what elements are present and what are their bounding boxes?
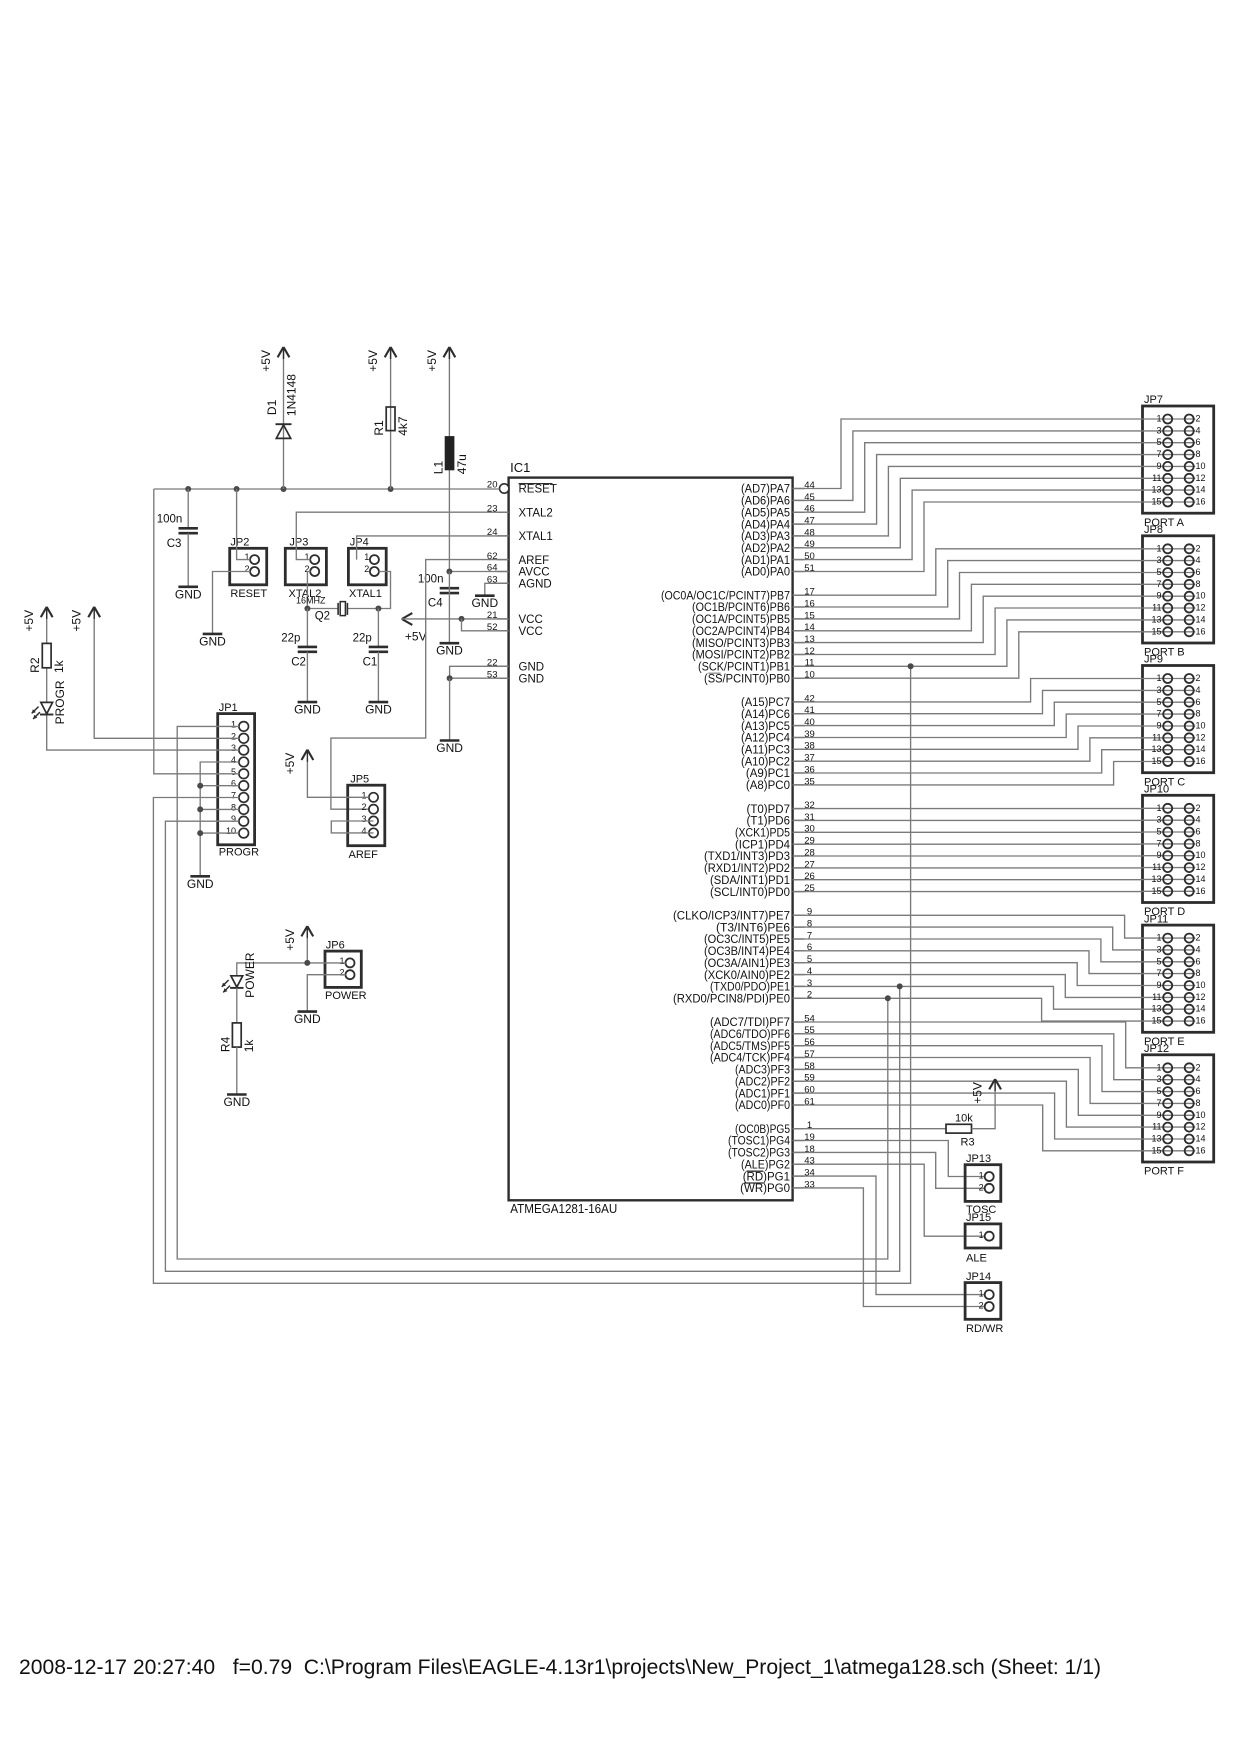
svg-text:(AD1)PA1: (AD1)PA1 bbox=[741, 555, 790, 567]
svg-text:13: 13 bbox=[1151, 485, 1161, 495]
svg-text:7: 7 bbox=[1156, 449, 1161, 459]
svg-text:33: 33 bbox=[804, 1179, 815, 1190]
svg-text:12: 12 bbox=[1196, 1122, 1206, 1132]
wire C3 to ground bbox=[187, 533, 189, 586]
svg-text:(TOSC1)PG4: (TOSC1)PG4 bbox=[728, 1136, 791, 1148]
svg-text:8: 8 bbox=[231, 802, 236, 812]
svg-text:30: 30 bbox=[804, 824, 815, 835]
svg-text:C2: C2 bbox=[291, 656, 306, 668]
svg-text:13: 13 bbox=[1151, 614, 1161, 624]
wire PF7 to JP12 pin 1 bbox=[793, 1022, 1143, 1068]
svg-text:34: 34 bbox=[804, 1168, 815, 1179]
wire PE6 to JP11 pin 3 bbox=[793, 927, 1143, 950]
svg-text:15: 15 bbox=[1151, 497, 1161, 507]
svg-text:8: 8 bbox=[1196, 968, 1201, 978]
wire PC1 to JP9 pin 13 bbox=[793, 750, 1143, 773]
svg-text:GND: GND bbox=[294, 703, 321, 717]
ground below C2 bbox=[294, 702, 321, 717]
svg-text:(ADC4/TCK)PF4: (ADC4/TCK)PF4 bbox=[710, 1053, 791, 1065]
svg-text:14: 14 bbox=[1196, 614, 1206, 624]
svg-text:1: 1 bbox=[1156, 803, 1161, 813]
node junction PDI on PE0 bbox=[885, 995, 891, 1001]
wire R3 to +5V bbox=[972, 1079, 996, 1129]
ground below C4 bbox=[436, 643, 463, 658]
wire RESET net bus bbox=[154, 488, 500, 490]
svg-text:9: 9 bbox=[1156, 1110, 1161, 1120]
svg-text:JP5: JP5 bbox=[350, 773, 369, 785]
svg-text:11: 11 bbox=[1152, 732, 1161, 742]
svg-text:(SS/PCINT0)PB0: (SS/PCINT0)PB0 bbox=[704, 673, 790, 685]
svg-text:(A15)PC7: (A15)PC7 bbox=[741, 697, 790, 709]
svg-text:(AD3)PA3: (AD3)PA3 bbox=[741, 531, 790, 543]
svg-text:(OC2A/PCINT4)PB4: (OC2A/PCINT4)PB4 bbox=[692, 626, 791, 638]
svg-text:(A8)PC0: (A8)PC0 bbox=[746, 780, 790, 792]
connector JP9 PORT C 16-pin header bbox=[1143, 654, 1214, 789]
svg-text:(OC3C/INT5)PE5: (OC3C/INT5)PE5 bbox=[704, 934, 790, 946]
svg-text:1: 1 bbox=[1156, 1062, 1161, 1072]
wire PF2 to JP12 pin 11 bbox=[793, 1081, 1143, 1127]
wire JP2 pin2 to ground bbox=[213, 572, 251, 634]
svg-text:16: 16 bbox=[1196, 1145, 1206, 1155]
svg-text:JP12: JP12 bbox=[1144, 1043, 1169, 1055]
svg-text:11: 11 bbox=[1152, 473, 1161, 483]
svg-text:12: 12 bbox=[804, 646, 815, 657]
connector JP11 PORT E 16-pin header bbox=[1143, 913, 1214, 1048]
svg-text:10: 10 bbox=[1196, 721, 1206, 731]
+5V supply at R1 bbox=[366, 347, 396, 372]
node junction pin8 gnd bbox=[197, 806, 203, 812]
svg-text:6: 6 bbox=[1196, 697, 1201, 707]
+5V supply at JP6 bbox=[283, 926, 313, 951]
wire ALE to JP15 bbox=[793, 1164, 985, 1236]
node junction POWER bbox=[304, 960, 310, 966]
svg-text:(ADC7/TDI)PF7: (ADC7/TDI)PF7 bbox=[710, 1017, 790, 1029]
svg-text:4: 4 bbox=[1196, 815, 1201, 825]
wire C2 to ground bbox=[306, 652, 308, 702]
svg-text:10: 10 bbox=[1196, 980, 1206, 990]
wire JP4 pin2 to crystal bbox=[378, 572, 390, 609]
wire XTAL1 net to IC pin 24 bbox=[357, 536, 509, 560]
svg-text:4: 4 bbox=[1196, 425, 1201, 435]
crystal Q2 16MHZ bbox=[296, 596, 378, 623]
svg-text:+5V: +5V bbox=[971, 1082, 985, 1104]
svg-text:15: 15 bbox=[1151, 886, 1161, 896]
svg-text:3: 3 bbox=[1156, 685, 1161, 695]
svg-text:37: 37 bbox=[804, 753, 815, 764]
svg-text:GND: GND bbox=[519, 662, 545, 674]
svg-text:(OC0B)PG5: (OC0B)PG5 bbox=[735, 1124, 790, 1136]
svg-text:14: 14 bbox=[804, 622, 815, 633]
ground below JP2 bbox=[199, 634, 226, 649]
connector JP3 XTAL2 jumper bbox=[285, 537, 326, 601]
svg-text:9: 9 bbox=[1156, 591, 1161, 601]
wire crystal to C1 bbox=[377, 609, 379, 647]
svg-text:3: 3 bbox=[1156, 944, 1161, 954]
node junction JP2/RESET bbox=[234, 486, 240, 492]
connector JP14 RD/WR jumper bbox=[965, 1271, 1003, 1335]
svg-text:7: 7 bbox=[1156, 968, 1161, 978]
svg-text:1: 1 bbox=[361, 790, 366, 800]
wire PC2 to JP9 pin 11 bbox=[793, 738, 1143, 761]
connector JP10 PORT D 16-pin header bbox=[1143, 784, 1214, 919]
svg-text:(A12)PC4: (A12)PC4 bbox=[741, 733, 791, 745]
wire PA0 to JP7 pin 15 bbox=[793, 502, 1143, 572]
svg-text:(OC0A/OC1C/PCINT7)PB7: (OC0A/OC1C/PCINT7)PB7 bbox=[661, 590, 790, 602]
wire PC6 to JP9 pin 3 bbox=[793, 690, 1143, 713]
svg-text:2: 2 bbox=[244, 564, 249, 574]
LED PROGR bbox=[32, 680, 67, 724]
svg-text:7: 7 bbox=[807, 930, 812, 941]
svg-text:12: 12 bbox=[1196, 862, 1206, 872]
resistor R1 4k7 bbox=[372, 407, 410, 436]
svg-text:16MHZ: 16MHZ bbox=[296, 596, 326, 606]
svg-text:ATMEGA1281-16AU: ATMEGA1281-16AU bbox=[510, 1201, 617, 1216]
svg-text:10: 10 bbox=[1196, 1110, 1206, 1120]
svg-text:54: 54 bbox=[804, 1013, 815, 1024]
wire WR to JP14 pin2 bbox=[793, 1188, 985, 1307]
svg-text:JP6: JP6 bbox=[326, 939, 345, 951]
svg-text:6: 6 bbox=[231, 779, 236, 789]
svg-text:11: 11 bbox=[805, 658, 815, 669]
svg-text:56: 56 bbox=[804, 1037, 815, 1048]
svg-text:2: 2 bbox=[979, 1182, 984, 1192]
svg-text:12: 12 bbox=[1196, 732, 1206, 742]
node junction pin10 gnd bbox=[197, 830, 203, 836]
svg-text:Q2: Q2 bbox=[315, 610, 330, 622]
connector JP1 PROGR 10-pin header bbox=[218, 702, 259, 859]
svg-text:C3: C3 bbox=[167, 538, 182, 550]
svg-text:35: 35 bbox=[804, 776, 815, 787]
wire R4 to ground bbox=[236, 1047, 238, 1094]
svg-text:5: 5 bbox=[1156, 437, 1161, 447]
wire RD to JP14 pin1 bbox=[793, 1176, 985, 1295]
svg-text:+5V: +5V bbox=[425, 350, 439, 372]
svg-text:61: 61 bbox=[804, 1096, 815, 1107]
svg-text:(T3/INT6)PE6: (T3/INT6)PE6 bbox=[716, 922, 790, 934]
svg-text:6: 6 bbox=[1196, 567, 1201, 577]
svg-text:3: 3 bbox=[1156, 815, 1161, 825]
svg-text:32: 32 bbox=[804, 800, 815, 811]
node junction crystal left bbox=[304, 606, 310, 612]
wire XTAL2 net to IC pin 23 bbox=[296, 512, 508, 559]
svg-text:XTAL1: XTAL1 bbox=[519, 531, 553, 543]
svg-text:GND: GND bbox=[187, 877, 214, 891]
svg-text:AGND: AGND bbox=[519, 579, 552, 591]
svg-text:VCC: VCC bbox=[519, 614, 543, 626]
wire +5V to VCC pin 21 bbox=[402, 618, 509, 620]
node junction R1/RESET bbox=[388, 486, 394, 492]
svg-text:1: 1 bbox=[979, 1230, 984, 1240]
wire JP1 pin1 MOSI/PDI return bbox=[177, 726, 888, 1259]
connector JP6 POWER jumper bbox=[325, 939, 367, 1002]
wire PA7 to JP7 pin 1 bbox=[793, 419, 1143, 489]
svg-text:1k: 1k bbox=[52, 659, 66, 673]
svg-text:(AD4)PA4: (AD4)PA4 bbox=[741, 519, 791, 531]
svg-text:(ADC6/TDO)PF6: (ADC6/TDO)PF6 bbox=[710, 1029, 790, 1041]
wire PC3 to JP9 pin 9 bbox=[793, 726, 1143, 749]
svg-text:GND: GND bbox=[519, 673, 545, 685]
wire AREF net to JP5 pin 2 bbox=[331, 560, 509, 810]
+5V supply at L1 bbox=[425, 347, 455, 372]
svg-text:14: 14 bbox=[1196, 485, 1206, 495]
+5V supply at VCC pins bbox=[402, 613, 427, 643]
wire R1 branch bbox=[390, 347, 392, 489]
node junction PDO on PE1 bbox=[897, 983, 903, 989]
svg-text:13: 13 bbox=[1151, 1134, 1161, 1144]
svg-text:39: 39 bbox=[804, 729, 815, 740]
wire JP1 pin8 stub bbox=[200, 808, 239, 810]
svg-text:11: 11 bbox=[1152, 862, 1161, 872]
wire PA2 to JP7 pin 11 bbox=[793, 478, 1143, 548]
svg-text:JP1: JP1 bbox=[219, 702, 238, 714]
IC1 right pin names and numbers bbox=[661, 480, 815, 1195]
svg-text:46: 46 bbox=[804, 504, 815, 515]
svg-text:11: 11 bbox=[1152, 992, 1161, 1002]
svg-text:9: 9 bbox=[1156, 721, 1161, 731]
wire +5V to JP6 pin1 and LED bbox=[307, 926, 345, 963]
wire D1 branch bbox=[283, 347, 285, 489]
wire VCC jog to pin 52 bbox=[462, 619, 509, 631]
svg-text:(ADC2)PF2: (ADC2)PF2 bbox=[735, 1077, 790, 1089]
wire GND pin 22 bbox=[450, 666, 509, 678]
svg-text:10: 10 bbox=[1196, 461, 1206, 471]
svg-text:C1: C1 bbox=[363, 656, 378, 668]
svg-text:47: 47 bbox=[804, 516, 815, 527]
wire JP1 pin7 SCK return bbox=[153, 666, 910, 1283]
svg-text:15: 15 bbox=[804, 610, 815, 621]
svg-text:15: 15 bbox=[1151, 626, 1161, 636]
svg-text:9: 9 bbox=[807, 907, 812, 918]
svg-text:1: 1 bbox=[1156, 933, 1161, 943]
svg-text:(AD2)PA2: (AD2)PA2 bbox=[741, 543, 790, 555]
svg-text:2: 2 bbox=[807, 990, 812, 1001]
capacitor C4 bbox=[418, 574, 459, 610]
wire TOSC2 to JP13 pin2 bbox=[793, 1152, 985, 1188]
wire PA6 to JP7 pin 3 bbox=[793, 431, 1143, 501]
svg-text:22p: 22p bbox=[353, 632, 372, 644]
connector JP8 PORT B 16-pin header bbox=[1143, 524, 1214, 659]
svg-text:3: 3 bbox=[361, 814, 366, 824]
wire JP1 pin5 to RESET bus bbox=[154, 489, 239, 774]
svg-text:C4: C4 bbox=[428, 598, 443, 610]
svg-text:100n: 100n bbox=[157, 514, 183, 526]
svg-text:L1: L1 bbox=[432, 461, 446, 475]
svg-text:3: 3 bbox=[807, 978, 812, 989]
svg-text:6: 6 bbox=[1196, 437, 1201, 447]
svg-text:2: 2 bbox=[979, 1301, 984, 1311]
svg-text:(SDA/INT1)PD1: (SDA/INT1)PD1 bbox=[710, 875, 790, 887]
svg-text:(TXD1/INT3)PD3: (TXD1/INT3)PD3 bbox=[704, 851, 790, 863]
svg-text:19: 19 bbox=[804, 1132, 815, 1143]
svg-text:16: 16 bbox=[1196, 886, 1206, 896]
svg-text:2: 2 bbox=[364, 564, 369, 574]
wire PA3 to JP7 pin 9 bbox=[793, 466, 1143, 536]
svg-text:XTAL1: XTAL1 bbox=[349, 588, 382, 600]
wire PB6 to JP8 pin 3 bbox=[793, 561, 1143, 607]
resistor R3 10k bbox=[946, 1112, 975, 1148]
svg-text:JP4: JP4 bbox=[350, 537, 369, 549]
wire R2 LED branch bbox=[46, 607, 48, 643]
wire JP1 pin9 MISO/PDO return bbox=[165, 821, 899, 1271]
svg-text:(RXD0/PCIN8/PDI)PE0: (RXD0/PCIN8/PDI)PE0 bbox=[673, 994, 790, 1006]
svg-text:(A9)PC1: (A9)PC1 bbox=[746, 768, 790, 780]
node junction SCK on PB1 bbox=[908, 663, 914, 669]
svg-text:13: 13 bbox=[1151, 874, 1161, 884]
svg-text:PROGR: PROGR bbox=[53, 680, 67, 724]
svg-text:2: 2 bbox=[361, 802, 366, 812]
svg-text:13: 13 bbox=[804, 634, 815, 645]
svg-text:1N4148: 1N4148 bbox=[284, 374, 298, 416]
svg-text:GND: GND bbox=[471, 596, 498, 610]
IC1 pin stubs bbox=[497, 489, 805, 1188]
svg-text:55: 55 bbox=[804, 1025, 815, 1036]
svg-text:+5V: +5V bbox=[259, 350, 273, 372]
svg-text:IC1: IC1 bbox=[510, 460, 530, 475]
svg-text:R2: R2 bbox=[28, 657, 42, 673]
svg-text:+5V: +5V bbox=[283, 753, 297, 775]
connector JP7 PORT A 16-pin header bbox=[1143, 394, 1214, 529]
svg-text:JP10: JP10 bbox=[1144, 784, 1169, 796]
svg-text:JP14: JP14 bbox=[966, 1271, 991, 1283]
svg-text:3: 3 bbox=[231, 743, 236, 753]
svg-text:AREF: AREF bbox=[349, 849, 379, 861]
svg-text:(TXD0/PDO)PE1: (TXD0/PDO)PE1 bbox=[710, 982, 790, 994]
svg-text:2: 2 bbox=[1196, 933, 1201, 943]
svg-text:(AD0)PA0: (AD0)PA0 bbox=[741, 567, 790, 579]
svg-text:16: 16 bbox=[1196, 756, 1206, 766]
svg-text:13: 13 bbox=[1151, 1004, 1161, 1014]
svg-text:(XCK1)PD5: (XCK1)PD5 bbox=[735, 828, 790, 840]
svg-text:10: 10 bbox=[804, 670, 815, 681]
svg-text:+5V: +5V bbox=[70, 610, 84, 632]
svg-text:4: 4 bbox=[1196, 944, 1201, 954]
svg-text:+5V: +5V bbox=[366, 350, 380, 372]
svg-text:48: 48 bbox=[804, 527, 815, 538]
LED POWER bbox=[222, 952, 257, 998]
svg-text:2: 2 bbox=[1196, 414, 1201, 424]
svg-text:(ALE)PG2: (ALE)PG2 bbox=[741, 1159, 790, 1171]
wire PF6 to JP12 pin 3 bbox=[793, 1034, 1143, 1080]
svg-text:AVCC: AVCC bbox=[519, 567, 550, 579]
wire C3 branch bbox=[187, 489, 189, 528]
svg-text:5: 5 bbox=[1156, 827, 1161, 837]
svg-text:1: 1 bbox=[807, 1120, 812, 1131]
wire TOSC1 to JP13 pin1 bbox=[793, 1141, 985, 1177]
svg-text:(WR)PG0: (WR)PG0 bbox=[740, 1183, 790, 1195]
svg-text:9: 9 bbox=[1156, 461, 1161, 471]
resistor R4 1k bbox=[218, 1023, 256, 1052]
svg-text:(MOSI/PCINT2)PB2: (MOSI/PCINT2)PB2 bbox=[692, 650, 790, 662]
svg-text:XTAL2: XTAL2 bbox=[519, 507, 553, 519]
svg-text:2: 2 bbox=[1196, 1062, 1201, 1072]
svg-text:GND: GND bbox=[436, 741, 463, 755]
wire PF0 to JP12 pin 15 bbox=[793, 1105, 1143, 1151]
svg-text:5: 5 bbox=[1156, 697, 1161, 707]
svg-text:7: 7 bbox=[1156, 838, 1161, 848]
svg-text:31: 31 bbox=[804, 812, 815, 823]
svg-text:38: 38 bbox=[804, 741, 815, 752]
svg-text:(RXD1/INT2)PD2: (RXD1/INT2)PD2 bbox=[704, 863, 790, 875]
svg-text:8: 8 bbox=[1196, 449, 1201, 459]
svg-text:9: 9 bbox=[1156, 980, 1161, 990]
svg-text:R1: R1 bbox=[372, 420, 386, 436]
svg-text:(SCK/PCINT1)PB1: (SCK/PCINT1)PB1 bbox=[698, 662, 790, 674]
wire PB4 to JP8 pin 7 bbox=[793, 584, 1143, 631]
svg-text:29: 29 bbox=[804, 836, 815, 847]
wire PA4 to JP7 pin 7 bbox=[793, 455, 1143, 524]
svg-text:14: 14 bbox=[1196, 744, 1206, 754]
svg-text:1k: 1k bbox=[242, 1039, 256, 1053]
svg-text:7: 7 bbox=[1156, 709, 1161, 719]
svg-text:(OC3B/INT4)PE4: (OC3B/INT4)PE4 bbox=[704, 946, 791, 958]
svg-text:GND: GND bbox=[436, 644, 463, 658]
svg-text:4: 4 bbox=[807, 966, 812, 977]
ground below C1 bbox=[365, 702, 392, 717]
svg-text:(ADC0)PF0: (ADC0)PF0 bbox=[735, 1100, 790, 1112]
wire PC5 to JP9 pin 5 bbox=[793, 702, 1143, 725]
svg-text:7: 7 bbox=[1156, 1098, 1161, 1108]
svg-text:3: 3 bbox=[1156, 555, 1161, 565]
svg-text:22p: 22p bbox=[281, 632, 300, 644]
node junction GND pins bbox=[447, 675, 453, 681]
svg-text:JP3: JP3 bbox=[289, 537, 308, 549]
svg-text:GND: GND bbox=[365, 703, 392, 717]
svg-text:17: 17 bbox=[804, 587, 815, 598]
svg-text:(MISO/PCINT3)PB3: (MISO/PCINT3)PB3 bbox=[692, 638, 790, 650]
svg-text:1: 1 bbox=[1156, 543, 1161, 553]
svg-text:16: 16 bbox=[1196, 1016, 1206, 1026]
svg-text:(AD5)PA5: (AD5)PA5 bbox=[741, 507, 790, 519]
wire JP3 pin2 to crystal bbox=[307, 572, 310, 609]
svg-text:6: 6 bbox=[807, 942, 812, 953]
connector JP2 RESET jumper bbox=[230, 537, 268, 601]
wire PF4 to JP12 pin 7 bbox=[793, 1058, 1143, 1104]
svg-text:12: 12 bbox=[1196, 603, 1206, 613]
svg-text:15: 15 bbox=[1151, 1016, 1161, 1026]
svg-text:57: 57 bbox=[804, 1049, 815, 1060]
wire JP1 pin4 ground chain bbox=[200, 762, 239, 876]
svg-text:51: 51 bbox=[804, 563, 815, 574]
ground below C3 bbox=[175, 587, 202, 602]
svg-text:JP8: JP8 bbox=[1144, 524, 1163, 536]
inductor L1 47u bbox=[432, 436, 469, 474]
svg-text:(RD)PG1: (RD)PG1 bbox=[743, 1171, 790, 1183]
svg-text:1: 1 bbox=[339, 956, 344, 966]
wire PE3 to JP11 pin 9 bbox=[793, 963, 1143, 986]
wire JP6 pin2 to ground bbox=[307, 975, 345, 1012]
svg-text:(OC1B/PCINT6)PB6: (OC1B/PCINT6)PB6 bbox=[692, 602, 790, 614]
wire PB3 to JP8 pin 9 bbox=[793, 596, 1143, 642]
svg-text:JP9: JP9 bbox=[1144, 654, 1163, 666]
svg-text:13: 13 bbox=[1151, 744, 1161, 754]
connector JP5 AREF 4-pin header bbox=[348, 773, 385, 861]
svg-text:25: 25 bbox=[804, 883, 815, 894]
svg-text:R3: R3 bbox=[961, 1137, 975, 1149]
svg-text:1: 1 bbox=[1156, 414, 1161, 424]
svg-text:ALE: ALE bbox=[966, 1253, 987, 1265]
wire JP5 pins 3-4 loop bbox=[331, 821, 373, 833]
svg-text:1: 1 bbox=[1156, 673, 1161, 683]
svg-text:16: 16 bbox=[1196, 497, 1206, 507]
svg-text:4: 4 bbox=[1196, 685, 1201, 695]
svg-text:14: 14 bbox=[1196, 1134, 1206, 1144]
svg-text:44: 44 bbox=[804, 480, 815, 491]
svg-text:8: 8 bbox=[1196, 709, 1201, 719]
svg-text:26: 26 bbox=[804, 871, 815, 882]
svg-text:42: 42 bbox=[804, 693, 815, 704]
svg-text:3: 3 bbox=[1156, 1074, 1161, 1084]
svg-text:11: 11 bbox=[1152, 1122, 1161, 1132]
